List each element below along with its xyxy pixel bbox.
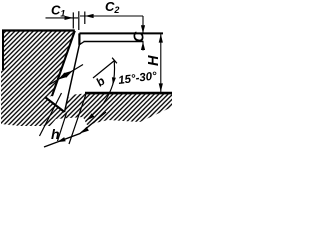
svg-text:H: H <box>146 55 162 66</box>
svg-text:h: h <box>51 126 60 142</box>
svg-text:C: C <box>131 31 148 43</box>
